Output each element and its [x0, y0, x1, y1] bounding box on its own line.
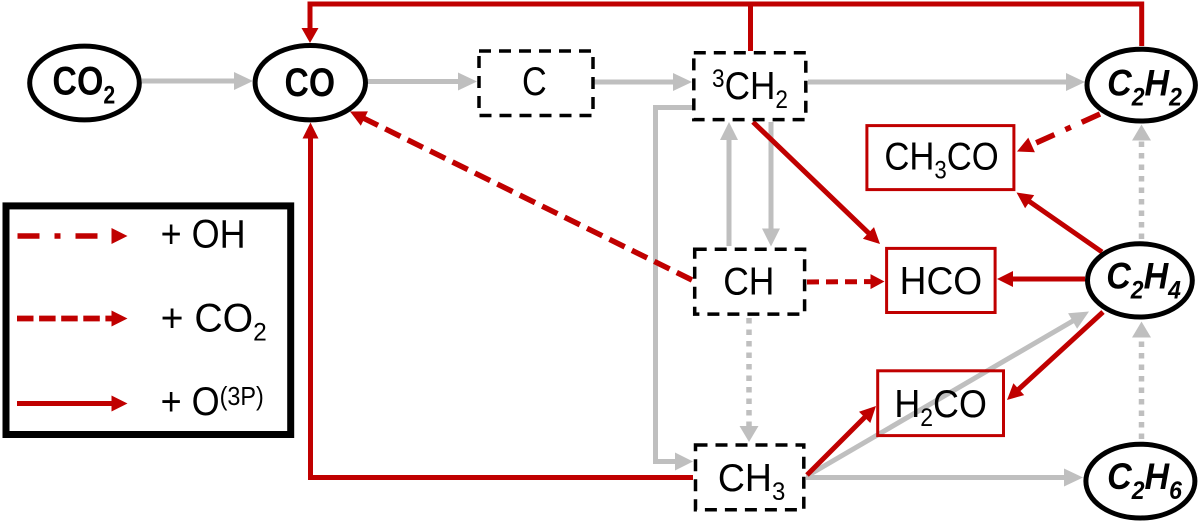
- node CO (ellipse): [255, 45, 365, 119]
- svg-text:C: C: [522, 59, 547, 104]
- svg-text:+ OH: + OH: [161, 213, 246, 257]
- wire/arrow 3CH2 to C2H2 (gray solid): [808, 73, 1085, 91]
- node CH3 (dashed box): [696, 445, 804, 510]
- label CH3: [718, 456, 785, 506]
- node CH3CO (red box): [867, 126, 1014, 190]
- wire/arrow C2H4 to CH3CO (red solid diagonal): [1017, 193, 1103, 253]
- label H2CO: [894, 382, 987, 433]
- legend label + O(3P): [161, 380, 264, 424]
- node H2CO (red box): [878, 371, 1004, 436]
- node CO2 (ellipse): [30, 46, 140, 120]
- label C2H2: [1107, 62, 1182, 112]
- wire/arrow 3CH2 to CH (gray solid down): [762, 122, 780, 247]
- node C (dashed box): [479, 51, 593, 116]
- svg-text:H2CO: H2CO: [894, 382, 987, 433]
- label CH: [723, 259, 774, 303]
- node C2H6 (ellipse): [1086, 444, 1195, 518]
- label CH3CO: [884, 135, 998, 185]
- wire/arrow CH3 to H2CO (red solid diagonal): [807, 406, 876, 475]
- wire/arrow CH3 to C2H4 (gray diagonal): [807, 312, 1089, 477]
- legend label + CO2: [161, 296, 267, 346]
- wire/arrow CH to HCO (red dashed): [807, 274, 885, 289]
- legend arrow +OH (red dash-dot): [18, 228, 128, 244]
- label CO: [285, 60, 336, 104]
- wire/arrow 3CH2 and C2H2 to CO via top rail (red solid): [302, 4, 1142, 51]
- wire/arrow C2H4 to C2H2 (gray dotted up): [1132, 125, 1151, 240]
- wire/arrow C2H6 to C2H4 (gray dotted up): [1132, 322, 1151, 440]
- svg-text:CH: CH: [723, 259, 774, 303]
- wire/arrow C2H4 to H2CO (red solid diagonal): [1007, 312, 1103, 400]
- svg-text:CO: CO: [285, 60, 336, 104]
- node 3CH2 (dashed box): [694, 53, 806, 120]
- svg-text:+ CO2: + CO2: [161, 296, 267, 346]
- node HCO (red box): [887, 248, 996, 312]
- label CO2: [52, 58, 115, 109]
- wire/arrow C2H4 to HCO (red solid): [997, 271, 1085, 287]
- wire/arrow CH to 3CH2 (gray solid up): [720, 122, 738, 246]
- wire/arrow CO to C (gray solid): [368, 73, 477, 91]
- legend label + OH: [161, 213, 246, 257]
- wire/arrow CH to CH3 (gray dotted down): [740, 318, 759, 442]
- label 3CH2: [712, 63, 788, 114]
- label HCO: [900, 260, 982, 303]
- label C: [522, 59, 547, 104]
- wire/arrow C2H2 to CH3CO (red dash-dot): [1017, 114, 1100, 152]
- legend arrow +O3P (red solid): [17, 396, 128, 412]
- wire/arrow CH3 to CO (red solid bottom rail): [303, 123, 694, 478]
- legend arrow +CO2 (red dashed): [17, 311, 128, 327]
- wire/arrow CH3 to C2H6 (gray solid): [806, 469, 1083, 487]
- wire/arrow CO2 to CO (gray solid): [142, 72, 253, 90]
- label C2H4: [1106, 255, 1181, 305]
- legend box frame: [6, 206, 291, 435]
- wire/arrow C to 3CH2 (gray solid): [593, 73, 692, 91]
- node C2H2 (ellipse): [1087, 49, 1195, 121]
- wire/arrow 3CH2 to HCO (red solid diagonal): [753, 122, 880, 244]
- label C2H6: [1107, 456, 1182, 506]
- wire/arrow 3CH2 to CH3 (gray L-shaped): [656, 108, 694, 471]
- node C2H4 (ellipse): [1088, 244, 1193, 317]
- wire/arrow CH to CO (red dashed diagonal): [350, 111, 692, 280]
- node CH (dashed box): [695, 249, 805, 314]
- svg-text:HCO: HCO: [900, 260, 982, 303]
